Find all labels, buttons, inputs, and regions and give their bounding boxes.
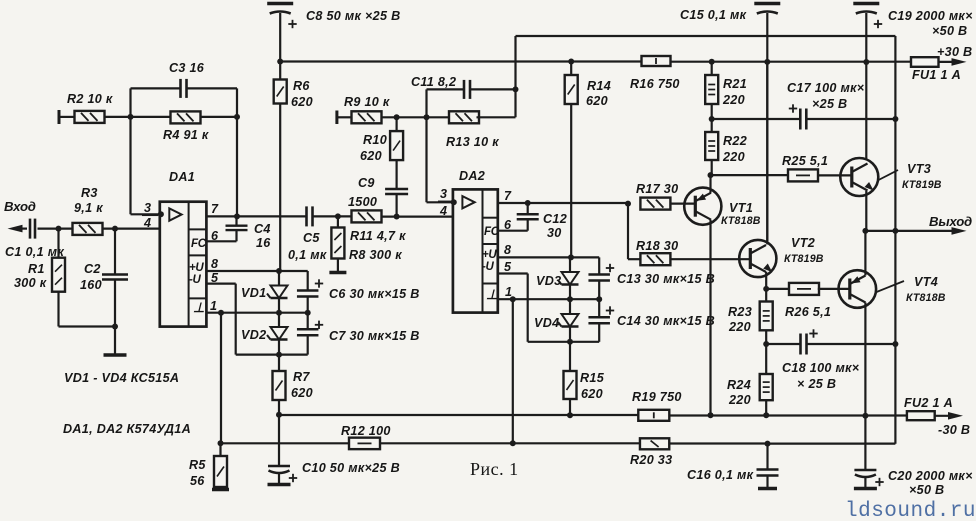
wire pin8 DA2	[498, 254, 599, 260]
capacitor C7	[297, 313, 420, 355]
svg-text:ldsound.ru: ldsound.ru	[845, 500, 976, 521]
transistor Q VT3	[840, 158, 941, 196]
wire	[236, 313, 308, 358]
capacitor C20	[854, 416, 973, 497]
svg-text:-U: -U	[482, 261, 495, 273]
wire emitter VT3	[865, 191, 867, 231]
svg-text:9,1 к: 9,1 к	[74, 201, 103, 215]
resistor R17	[636, 182, 678, 210]
svg-text:× 25 В: × 25 В	[797, 377, 836, 391]
wire	[38, 226, 73, 232]
wire	[218, 313, 224, 447]
svg-text:620: 620	[586, 94, 608, 108]
svg-text:620: 620	[360, 149, 382, 163]
svg-text:R1: R1	[28, 262, 45, 276]
wire collector VT2	[766, 62, 768, 245]
resistor R4	[163, 111, 240, 142]
zener diode VD4	[558, 299, 579, 342]
svg-text:КТ818В: КТ818В	[721, 215, 761, 227]
svg-text:FC: FC	[484, 226, 500, 238]
resistor R12	[341, 424, 513, 449]
ground	[104, 324, 127, 356]
wire emitter VT1	[708, 172, 714, 193]
svg-text:160: 160	[80, 278, 102, 292]
svg-text:C5: C5	[303, 231, 320, 245]
label Рис. 1	[470, 459, 519, 479]
svg-text:R18 30: R18 30	[636, 239, 678, 253]
svg-text:C17 100 мк×: C17 100 мк×	[787, 81, 865, 95]
svg-text:-30 В: -30 В	[938, 423, 970, 437]
zener diode VD3	[558, 257, 579, 299]
watermark ldsound.ru	[845, 500, 976, 521]
resistor R2	[59, 92, 113, 124]
fuse FU1	[911, 57, 961, 82]
svg-text:C7 30 мк×15 В: C7 30 мк×15 В	[329, 329, 420, 343]
capacitor C11	[411, 75, 516, 117]
svg-text:FC: FC	[191, 238, 207, 250]
resistor R19	[632, 390, 682, 421]
svg-text:R12 100: R12 100	[341, 424, 391, 438]
resistor R9	[337, 95, 390, 124]
capacitor C10	[268, 461, 400, 485]
power rail +30V right	[671, 59, 912, 65]
wire	[104, 114, 171, 120]
svg-text:R3: R3	[81, 186, 98, 200]
wire pin7 DA1	[206, 213, 306, 219]
svg-text:R5: R5	[189, 458, 206, 472]
svg-text:-U: -U	[189, 274, 202, 286]
svg-text:R21: R21	[723, 77, 747, 91]
svg-text:R24: R24	[727, 378, 751, 392]
svg-text:+30 В: +30 В	[937, 45, 972, 59]
svg-text:DA2: DA2	[459, 169, 485, 183]
wire pin3 DA1	[131, 211, 164, 217]
capacitor C9	[348, 160, 408, 217]
wire collector VT3	[865, 62, 867, 160]
capacitor C4	[206, 216, 271, 250]
resistor R15	[564, 342, 605, 415]
transistor Q VT2	[739, 236, 824, 277]
svg-text:620: 620	[581, 387, 603, 401]
capacitor C15	[680, 4, 780, 244]
capacitor C19	[853, 4, 973, 63]
resistor R5	[189, 443, 227, 489]
wire base VT1	[671, 203, 696, 205]
svg-text:1500: 1500	[348, 195, 377, 209]
wire pin5 DA2	[498, 274, 528, 300]
svg-text:×50 В: ×50 В	[932, 24, 967, 38]
capacitor C13	[588, 257, 715, 299]
svg-text:4: 4	[439, 204, 447, 218]
svg-text:7: 7	[211, 202, 219, 216]
fuse FU2	[904, 396, 954, 420]
node -30V arrow	[938, 412, 970, 437]
resistor R26	[766, 283, 850, 319]
wire pin5 DA1	[206, 284, 235, 313]
svg-text:VD1 - VD4 КС515А: VD1 - VD4 КС515А	[64, 371, 179, 385]
label VD1 VD2	[241, 286, 266, 342]
ground	[212, 488, 229, 491]
resistor R1	[14, 229, 115, 327]
resistor R21	[705, 62, 747, 119]
zener diode VD2	[267, 313, 288, 355]
resistor R23	[728, 289, 773, 344]
svg-text:VD4: VD4	[534, 316, 559, 330]
wire	[382, 114, 452, 120]
svg-text:C11 8,2: C11 8,2	[411, 75, 456, 89]
svg-text:R7: R7	[293, 370, 310, 384]
svg-text:R23: R23	[728, 305, 752, 319]
svg-text:R6: R6	[293, 79, 310, 93]
svg-text:5: 5	[504, 260, 512, 274]
bottom rail	[221, 440, 516, 446]
capacitor C17	[712, 81, 899, 130]
svg-text:VT2: VT2	[791, 236, 815, 250]
svg-text:⊥: ⊥	[193, 300, 204, 315]
svg-text:R14: R14	[587, 79, 611, 93]
capacitor C5	[288, 206, 327, 262]
svg-text:C15 0,1 мк: C15 0,1 мк	[680, 8, 747, 22]
svg-text:3: 3	[144, 201, 151, 215]
wire	[765, 441, 896, 447]
transistor Q VT4	[839, 270, 946, 308]
svg-text:R19 750: R19 750	[632, 390, 682, 404]
svg-text:C3 16: C3 16	[169, 61, 205, 75]
svg-text:300 к: 300 к	[14, 276, 47, 290]
svg-text:КТ819В: КТ819В	[902, 179, 942, 191]
resistor R18	[636, 239, 678, 265]
svg-text:КТ818В: КТ818В	[906, 292, 946, 304]
svg-text:+U: +U	[189, 262, 204, 274]
svg-text:620: 620	[291, 386, 313, 400]
label IC types	[63, 422, 191, 436]
svg-text:VD1: VD1	[241, 286, 266, 300]
resistor R13	[446, 111, 516, 149]
capacitor C8	[267, 4, 400, 62]
transistor Q VT1	[684, 188, 761, 227]
svg-text:R25 5,1: R25 5,1	[782, 154, 828, 168]
svg-text:4: 4	[143, 216, 151, 230]
resistor R3	[73, 186, 104, 235]
resistor R20	[630, 438, 768, 467]
capacitor C2	[80, 229, 128, 354]
svg-text:×50 В: ×50 В	[909, 483, 944, 497]
resistor R6	[274, 62, 313, 272]
wire output riser	[894, 36, 896, 444]
svg-text:VT4: VT4	[914, 275, 938, 289]
wire	[276, 412, 282, 466]
svg-text:R15: R15	[580, 371, 605, 385]
svg-text:R11 4,7 к: R11 4,7 к	[350, 229, 406, 243]
wire pin1 DA1	[206, 310, 310, 316]
resistor R8	[331, 216, 402, 271]
wire	[628, 204, 640, 260]
svg-text:7: 7	[504, 189, 512, 203]
svg-text:8: 8	[211, 257, 218, 271]
wire pin8 DA1	[206, 268, 307, 274]
wire feedback riser	[513, 36, 519, 117]
node +30V arrow	[937, 45, 972, 66]
op-amp U DA2	[438, 169, 512, 313]
resistor R22	[705, 116, 747, 175]
wire base VT2	[671, 258, 751, 260]
svg-text:R22: R22	[723, 134, 747, 148]
svg-text:220: 220	[722, 150, 745, 164]
capacitor C3	[131, 61, 238, 214]
op-amp U DA1	[142, 170, 219, 327]
svg-text:R9 10 к: R9 10 к	[344, 95, 390, 109]
capacitor C1	[5, 219, 64, 259]
wire	[513, 442, 640, 444]
wire emitter VT4	[864, 231, 866, 276]
svg-text:VD3: VD3	[536, 274, 561, 288]
capacitor C12	[498, 203, 567, 240]
svg-text:Рис. 1: Рис. 1	[470, 459, 519, 479]
label VD3 VD4	[534, 274, 561, 330]
resistor R11	[350, 210, 406, 243]
svg-text:R8 300 к: R8 300 к	[349, 248, 402, 262]
wire output	[862, 228, 957, 234]
resistor R7	[273, 355, 313, 415]
wire pin3 DA2	[427, 117, 457, 205]
svg-text:620: 620	[291, 95, 313, 109]
svg-text:56: 56	[190, 474, 205, 488]
capacitor C18	[763, 329, 898, 391]
node pin3 junctions overlay	[158, 199, 457, 217]
wire riser pin1 DA2	[512, 299, 514, 443]
svg-text:R17 30: R17 30	[636, 182, 678, 196]
wire	[528, 299, 600, 345]
svg-text:16: 16	[256, 236, 271, 250]
svg-text:C13 30 мк×15 В: C13 30 мк×15 В	[617, 272, 715, 286]
ground	[329, 271, 346, 274]
svg-text:R16 750: R16 750	[630, 77, 680, 91]
svg-text:C6 30 мк×15 В: C6 30 мк×15 В	[329, 287, 420, 301]
zener diode VD1	[64, 271, 288, 385]
wire	[103, 226, 160, 232]
svg-text:3: 3	[440, 187, 447, 201]
resistor R14	[565, 59, 611, 258]
wire	[236, 88, 238, 216]
wire	[313, 213, 352, 219]
resistor R10	[360, 117, 403, 163]
svg-text:Вход: Вход	[4, 199, 36, 214]
wire	[382, 214, 453, 220]
resistor R24	[727, 344, 773, 418]
wire collector VT1	[708, 220, 714, 419]
svg-text:FU1 1 А: FU1 1 А	[912, 68, 961, 82]
capacitor C6	[297, 271, 420, 313]
svg-text:×25 В: ×25 В	[812, 97, 847, 111]
svg-text:220: 220	[728, 320, 751, 334]
svg-text:+U: +U	[482, 249, 497, 261]
svg-text:R2 10 к: R2 10 к	[67, 92, 113, 106]
svg-text:C4: C4	[254, 222, 271, 236]
svg-text:C18 100 мк×: C18 100 мк×	[782, 361, 860, 375]
resistor R16	[630, 56, 680, 91]
node output arrow Выход	[929, 214, 972, 235]
svg-text:Выход: Выход	[929, 214, 972, 229]
svg-text:8: 8	[504, 243, 511, 257]
svg-text:FU2 1 А: FU2 1 А	[904, 396, 953, 410]
svg-text:КТ819В: КТ819В	[784, 253, 824, 265]
svg-text:C14 30 мк×15 В: C14 30 мк×15 В	[617, 314, 715, 328]
capacitor C16	[687, 444, 779, 489]
svg-text:R10: R10	[363, 133, 387, 147]
svg-text:VT1: VT1	[729, 201, 753, 215]
wire R22-R25 node	[711, 174, 789, 176]
svg-text:C9: C9	[358, 176, 375, 190]
svg-text:C12: C12	[543, 212, 567, 226]
svg-text:C20 2000 мк×: C20 2000 мк×	[888, 469, 973, 483]
svg-text:220: 220	[722, 93, 745, 107]
svg-text:VD2: VD2	[241, 328, 266, 342]
wire pin1 DA2	[498, 296, 602, 302]
svg-text:C8 50 мк ×25 В: C8 50 мк ×25 В	[306, 9, 400, 23]
svg-text:C2: C2	[84, 262, 101, 276]
svg-text:R20 33: R20 33	[630, 453, 672, 467]
node input terminal Вход, arrow	[4, 199, 36, 232]
svg-text:C10 50 мк×25 В: C10 50 мк×25 В	[302, 461, 400, 475]
svg-text:R26 5,1: R26 5,1	[785, 305, 831, 319]
svg-text:DA1, DA2 К574УД1А: DA1, DA2 К574УД1А	[63, 422, 191, 436]
power rail +30V left	[277, 59, 642, 65]
wire emitter VT2	[763, 272, 769, 292]
svg-text:220: 220	[728, 393, 751, 407]
capacitor C14	[588, 299, 715, 342]
svg-text:DA1: DA1	[169, 170, 195, 184]
svg-text:R4 91 к: R4 91 к	[163, 128, 209, 142]
svg-text:VT3: VT3	[907, 162, 931, 176]
resistor R25	[782, 154, 851, 181]
svg-text:R13 10 к: R13 10 к	[446, 135, 499, 149]
svg-text:C16 0,1 мк: C16 0,1 мк	[687, 468, 754, 482]
svg-text:0,1 мк: 0,1 мк	[288, 248, 327, 262]
svg-text:C19 2000 мк×: C19 2000 мк×	[888, 9, 973, 23]
svg-text:⊥: ⊥	[486, 287, 497, 302]
svg-text:1: 1	[210, 299, 217, 313]
svg-text:30: 30	[547, 226, 562, 240]
wire pin7 DA2	[498, 200, 631, 207]
wire collector VT4	[862, 303, 868, 419]
wire feedback line	[516, 35, 896, 37]
power rail -30V	[279, 412, 907, 418]
